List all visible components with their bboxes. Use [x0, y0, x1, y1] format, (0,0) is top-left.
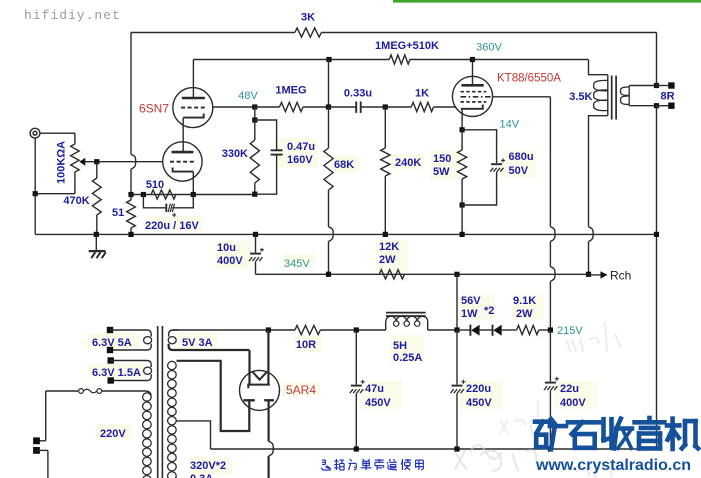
- svg-text:400V: 400V: [217, 255, 243, 267]
- wire jack ground down: [34, 138, 36, 194]
- svg-text:6SN7: 6SN7: [139, 102, 169, 116]
- svg-text:215V: 215V: [557, 325, 583, 337]
- svg-text:KT88/6550A: KT88/6550A: [497, 73, 561, 85]
- svg-text:68K: 68K: [334, 159, 354, 171]
- wire cathode down: [461, 109, 463, 130]
- wire jog over grid wire: [131, 155, 136, 170]
- svg-text:hifidiy.net: hifidiy.net: [24, 8, 121, 23]
- resistor 470K (grid leak): [96, 162, 98, 178]
- winding 5V 3A: [169, 344, 250, 350]
- svg-text:10u: 10u: [217, 242, 236, 254]
- svg-text:14V: 14V: [500, 119, 520, 131]
- resistor 51 cathode to ground: [130, 195, 132, 201]
- wire feedback left vertical: [130, 33, 132, 155]
- wire 345V rail: [256, 273, 589, 275]
- svg-text:10R: 10R: [296, 339, 316, 351]
- svg-text:5AR4: 5AR4: [286, 383, 316, 397]
- 5AR4 filament V: [252, 372, 267, 380]
- svg-text:0.47u: 0.47u: [287, 141, 315, 153]
- triode V1b upper 6SN7: [173, 88, 213, 128]
- resistor 150 5W cathode: [461, 130, 463, 150]
- svg-text:6.3V 5A: 6.3V 5A: [92, 337, 132, 349]
- capacitor 220u/16V bypass: [143, 195, 165, 208]
- wire HV center tap: [177, 421, 211, 449]
- wire lower cathode down: [192, 172, 194, 195]
- svg-text:220u / 16V: 220u / 16V: [145, 220, 199, 232]
- resistor 9.1K 2W screen feed: [517, 325, 539, 334]
- choke 5H 0.25A: [385, 321, 387, 330]
- svg-text:12K: 12K: [379, 241, 399, 253]
- svg-text:5W: 5W: [433, 166, 450, 178]
- wire upper grid to 48V node: [213, 106, 255, 108]
- zener diodes 56V 1W x2: [457, 329, 470, 331]
- capacitor 10u/400V decoupling: [253, 232, 258, 237]
- note text 退耦为单声道使用: [322, 459, 325, 461]
- svg-text:1W: 1W: [461, 308, 478, 320]
- svg-text:220V: 220V: [100, 428, 126, 440]
- main B+ line from rectifier: [173, 329, 295, 331]
- capacitor 680u/50V cathode bypass: [462, 130, 497, 163]
- svg-text:510: 510: [146, 179, 164, 191]
- svg-text:50V: 50V: [509, 165, 529, 177]
- mains plug: [45, 391, 47, 441]
- svg-text:2W: 2W: [379, 254, 396, 266]
- svg-text:360V: 360V: [476, 42, 502, 54]
- svg-text:2W: 2W: [516, 308, 533, 320]
- svg-text:Rch: Rch: [610, 269, 631, 283]
- capacitor 22u/400V screen filter: [549, 330, 551, 382]
- 5AR4 plates: [244, 399, 255, 401]
- rectifier V3 5AR4: [240, 370, 280, 410]
- bottom ground bus: [211, 448, 657, 450]
- wire wiper node to 6SN7 grid: [97, 161, 163, 163]
- resistor 1MEG+510K plate-to-plate feedback: [389, 55, 410, 64]
- svg-text:1K: 1K: [415, 88, 429, 100]
- svg-text:56V: 56V: [461, 295, 481, 307]
- svg-text:0.3A: 0.3A: [190, 473, 213, 478]
- winding 320V*2 HV secondary: [168, 361, 177, 369]
- label background patches: [276, 138, 318, 168]
- svg-text:450V: 450V: [466, 397, 492, 409]
- svg-text:5H: 5H: [393, 340, 407, 352]
- svg-text:100KΩA: 100KΩA: [56, 141, 68, 184]
- wire plate to 360V: [472, 60, 474, 86]
- svg-text:48V: 48V: [238, 90, 258, 102]
- OPT secondary: [628, 86, 630, 106]
- svg-text:1MEG+510K: 1MEG+510K: [375, 40, 439, 52]
- winding 6.3V 5A: [107, 327, 113, 333]
- OPT core: [611, 76, 613, 120]
- wire left plate to HV top: [177, 361, 250, 431]
- resistor 1MEG grid feedback: [255, 106, 280, 108]
- svg-text:0.33u: 0.33u: [344, 88, 372, 100]
- wire feedback top from output to cathode network: [131, 32, 295, 34]
- winding 6.3V 1.5A: [108, 357, 114, 363]
- node 48V: [252, 104, 257, 109]
- svg-text:345V: 345V: [284, 258, 310, 270]
- svg-text:320V*2: 320V*2: [190, 460, 226, 472]
- input jack J1: [30, 128, 40, 138]
- wire pot bottom to jack line: [35, 193, 75, 195]
- svg-text:22u: 22u: [560, 383, 579, 395]
- svg-text:3K: 3K: [301, 12, 315, 24]
- resistor 10R: [295, 325, 320, 334]
- branch 48V node down: [254, 107, 256, 120]
- svg-text:220u: 220u: [466, 383, 491, 395]
- triode V1a lower 6SN7: [163, 142, 202, 181]
- capacitor 0.33u coupling: [329, 106, 356, 108]
- resistor 68K plate load: [328, 107, 330, 148]
- ground symbol: [95, 234, 97, 251]
- svg-text:160V: 160V: [287, 154, 313, 166]
- svg-text:0.25A: 0.25A: [393, 352, 422, 364]
- svg-text:5V 3A: 5V 3A: [182, 337, 213, 349]
- speaker terminals 8R: [654, 83, 659, 88]
- pot wiper arrow: [83, 161, 97, 163]
- wire 5V bottom to 5AR4: [248, 350, 250, 384]
- svg-text:450V: 450V: [365, 397, 391, 409]
- wire plate up: [192, 60, 194, 99]
- ground bus: [35, 233, 656, 235]
- resistor 12K 2W dropper: [379, 270, 404, 279]
- wire plate node down: [328, 60, 330, 108]
- wire plate line to 1MEG+510K: [193, 59, 389, 61]
- svg-text:680u: 680u: [509, 151, 534, 163]
- svg-text:1MEG: 1MEG: [275, 85, 306, 97]
- svg-text:*2: *2: [484, 305, 494, 317]
- capacitor 220u/450V: [456, 330, 458, 385]
- power transformer T1 core: [157, 326, 159, 478]
- capacitor 47u/450V: [355, 330, 357, 385]
- resistor 1K grid stopper: [385, 106, 411, 108]
- wire upper cathode to lower plate: [182, 118, 184, 153]
- wire OPT primary bottom to B+: [589, 227, 594, 242]
- wire 360V node to OPT: [472, 59, 588, 61]
- wire cathode rail: [131, 194, 256, 196]
- capacitor 0.47u/160V: [255, 120, 277, 150]
- svg-text:6.3V 1.5A: 6.3V 1.5A: [92, 367, 141, 379]
- svg-text:www.crystalradio.cn: www.crystalradio.cn: [535, 457, 691, 474]
- winding 220V primary: [143, 393, 152, 401]
- resistor 240K KT88 grid leak: [384, 107, 386, 148]
- resistor 330K: [254, 120, 256, 140]
- fuse: [46, 390, 79, 392]
- wire B+ junction down into 5AR4: [267, 330, 269, 385]
- svg-text:47u: 47u: [365, 383, 384, 395]
- svg-text:51: 51: [112, 207, 124, 219]
- choke core bars: [386, 312, 426, 314]
- resistor 3K (feedback): [295, 28, 321, 37]
- wire screen grid to right: [492, 96, 550, 98]
- node ground symbol junction: [94, 232, 99, 237]
- svg-text:240K: 240K: [395, 157, 421, 169]
- wire jack to pot: [40, 132, 75, 134]
- svg-text:150: 150: [433, 153, 451, 165]
- svg-text:470K: 470K: [63, 195, 89, 207]
- svg-text:330K: 330K: [222, 148, 248, 160]
- svg-text:400V: 400V: [560, 397, 586, 409]
- arrow Rch: [589, 274, 605, 276]
- svg-text:3.5K: 3.5K: [569, 91, 592, 103]
- svg-text:8R: 8R: [661, 91, 675, 103]
- wire down to ground bus: [34, 194, 36, 235]
- watermark 矿石收音机: [535, 419, 549, 424]
- green top line: [393, 0, 701, 3]
- pentode V2 KT88/6550A: [452, 76, 492, 116]
- wire 12K to choke output: [456, 274, 458, 330]
- resistor 510: [151, 190, 176, 199]
- wire right plate to HV bottom (off page): [268, 400, 270, 441]
- svg-text:9.1K: 9.1K: [513, 295, 536, 307]
- wire right edge: fb tap / secondary ground: [656, 33, 658, 86]
- output transformer T2 primary 3.5K: [589, 60, 608, 75]
- 5AR4 filament/cathode bar: [248, 385, 270, 389]
- potentiometer 100KΩA: [74, 133, 76, 144]
- wire screen down: [549, 97, 551, 227]
